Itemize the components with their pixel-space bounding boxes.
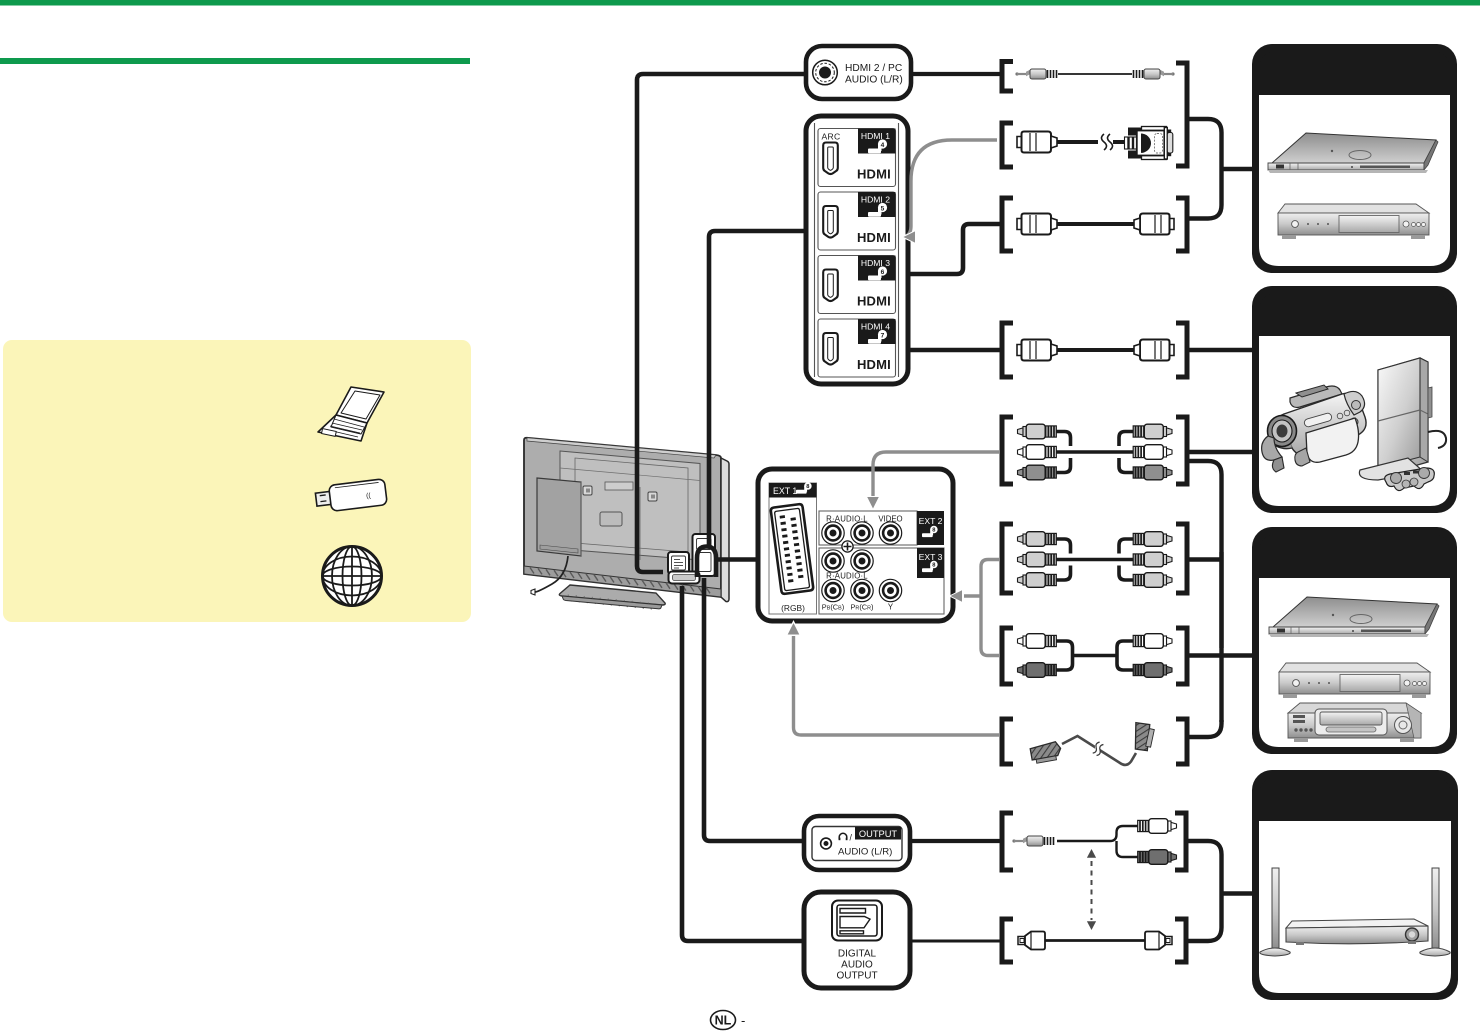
wire: OUTPUT box to bracket [910, 839, 1000, 843]
audio cable plugs [1018, 634, 1173, 678]
wire: TV to AUDIO OUTPUT box [704, 578, 804, 841]
svg-text:HDMI: HDMI [857, 357, 891, 372]
HDMI-DVI cable [1017, 127, 1173, 160]
svg-text:OUTPUT: OUTPUT [859, 829, 898, 839]
blu-ray player illustration [1268, 133, 1438, 173]
terminal cover panel tall [693, 534, 716, 576]
svg-text:HDMI: HDMI [857, 167, 891, 182]
bottom dark strip with vents [524, 566, 721, 597]
svg-text:HDMI: HDMI [857, 230, 891, 245]
minijack-2rca cable [1012, 819, 1176, 865]
mount holes [583, 486, 592, 495]
lower-left service door [537, 478, 581, 556]
bracket right row3 [1176, 198, 1187, 251]
strap [1262, 436, 1282, 460]
HDMI 1 port cell [818, 129, 896, 187]
wire: row10 to trunk and device box 4 [1186, 886, 1222, 941]
globe icon [323, 547, 382, 606]
EXT 1 terminal box [758, 469, 953, 621]
svg-text:ARC: ARC [822, 132, 841, 142]
bracket left row5 [1002, 417, 1013, 484]
top handle [1290, 386, 1342, 407]
TV right side edge [721, 458, 729, 602]
svg-text:5: 5 [881, 205, 885, 212]
HDMI 2 / PC AUDIO (L/R) terminal box [806, 46, 911, 99]
EXT2 panel (composite) [819, 511, 917, 545]
wire: DIGITAL box to bracket [910, 940, 1000, 943]
HDMI 2 receptacle [823, 206, 838, 238]
DVI connector [1125, 127, 1173, 160]
component cable plugs [1018, 532, 1173, 588]
scart plug right [1130, 722, 1155, 752]
svg-text:HDMI 1: HDMI 1 [861, 131, 890, 141]
TV rear view illustration [524, 438, 729, 610]
svg-text:EXT 3: EXT 3 [919, 552, 943, 562]
svg-text:6: 6 [881, 269, 885, 276]
bracket left row2 [1002, 123, 1013, 167]
headphone glyph [839, 833, 847, 839]
gray lead: SCART cable to EXT1 bottom [794, 634, 1000, 735]
optical cable [1018, 932, 1172, 950]
gray lead: composite cable to EXT2 panel [873, 452, 999, 496]
HDMI cable row4 [1017, 340, 1174, 361]
device box: camcorder/game console [1252, 286, 1457, 513]
wire: HDMI4 port to bracket [906, 348, 1000, 353]
bracket right row5 [1176, 417, 1187, 484]
HDMI 3 label plate [858, 256, 896, 281]
svg-text:AUDIO (L/R): AUDIO (L/R) [838, 847, 892, 858]
lens barrel rings [1269, 414, 1292, 449]
bracket right row6 [1176, 524, 1187, 593]
TV top edge strip [527, 438, 716, 458]
laptop icon [318, 387, 384, 441]
svg-text:EXT 1: EXT 1 [773, 486, 797, 496]
svg-text:HDMI 3: HDMI 3 [861, 258, 890, 268]
DIGITAL AUDIO OUTPUT terminal box [804, 892, 910, 988]
vcr illustration [1288, 703, 1421, 742]
svg-text:AUDIO: AUDIO [841, 960, 873, 971]
green section rule [0, 58, 470, 64]
svg-text:HDMI 2 / PC: HDMI 2 / PC [845, 63, 902, 74]
wire: row4 to device box 2 [1188, 348, 1252, 353]
svg-text:HDMI 2: HDMI 2 [861, 195, 890, 205]
EXT 2 label plate [917, 511, 944, 545]
power cord [535, 556, 568, 592]
wire: TV to EXT1 [714, 557, 758, 562]
wire: HDMI2/PC AUDIO to TV [637, 74, 806, 572]
vent hatch strip upper [560, 468, 700, 481]
device box: Blu-ray/DVD/VCR stack [1252, 527, 1457, 754]
footer page mark (NL) [711, 1011, 746, 1030]
scart plug left [1030, 741, 1063, 764]
svg-text:HDMI 4: HDMI 4 [861, 322, 890, 332]
bracket left row10 [1002, 919, 1013, 962]
mini-jack cable [1015, 69, 1174, 79]
HDMI 2 label plate [858, 192, 896, 217]
home theater illustration [1260, 868, 1450, 956]
bracket left row6 [1002, 524, 1013, 593]
bracket right row9 [1175, 813, 1186, 870]
HDMI 4 port cell [818, 319, 896, 377]
svg-text:DIGITAL: DIGITAL [838, 949, 877, 960]
tall right bracket rows 1-2 [1176, 63, 1187, 166]
EXT 3 label plate [917, 548, 944, 578]
SCART connector (EXT1 RGB) [770, 504, 813, 594]
EXT3 panel (component) [819, 548, 944, 614]
bracket left row9 [1002, 813, 1013, 870]
device box: Blu-ray/DVD player [1252, 44, 1457, 273]
gray lead: component+audio to EXT3 [981, 560, 999, 656]
svg-text:NL: NL [715, 1014, 732, 1028]
OUTPUT AUDIO (L/R) terminal box [804, 816, 910, 870]
svg-text:HDMI: HDMI [857, 294, 891, 309]
dvd player illustration 2 [1279, 663, 1430, 698]
wire loop at TV terminal [697, 547, 716, 578]
HDMI 4 label plate [858, 319, 896, 344]
HDMI 2 port cell [818, 192, 896, 250]
side detail [1303, 412, 1332, 427]
bracket left row4 [1002, 323, 1013, 377]
TV cabinet back panel [524, 438, 721, 597]
bracket left row3 [1002, 198, 1013, 251]
plus joint symbol [842, 541, 853, 552]
device box: home theater audio system [1252, 770, 1458, 1000]
wire: composite branch to trunk [1188, 461, 1222, 552]
bracket right row8 [1176, 719, 1187, 764]
viewfinder [1344, 391, 1365, 415]
wire: HDMI3 port to bracket [906, 224, 1000, 274]
bracket left row8 [1002, 719, 1013, 764]
HDMI 3 port cell [818, 256, 896, 314]
top green header bar [0, 0, 1480, 6]
HDMI cable row3 [1017, 214, 1174, 235]
wire: TV to DIGITAL AUDIO OUTPUT box [682, 586, 804, 941]
camcorder illustration [1262, 385, 1366, 472]
OUTPUT label plate [855, 827, 901, 840]
svg-text:7: 7 [881, 332, 885, 339]
HDMI 4 receptacle [823, 333, 838, 365]
wire: composite to device box 2 [1188, 450, 1252, 455]
TV stand base [559, 585, 665, 605]
game console illustration [1359, 358, 1446, 491]
EXT1 scart area outline [769, 483, 817, 614]
svg-text:OUTPUT: OUTPUT [836, 971, 877, 982]
mid panel lines [581, 482, 640, 560]
SCART cable [1030, 722, 1155, 765]
wire: HDMI2/PC box to bracket [911, 72, 1000, 76]
EXT 1 label plate [769, 483, 817, 498]
svg-text:(RGB): (RGB) [781, 603, 805, 613]
wire: SCART row to trunk [1188, 720, 1222, 737]
wire: HDMI2 port to TV [709, 231, 818, 545]
bracket right row10 [1175, 919, 1186, 962]
wire: component to trunk [1188, 557, 1222, 562]
usb wireless dongle icon [315, 479, 388, 513]
right junction trunk rows1-2 to device box 1 [1188, 119, 1222, 219]
HDMI terminals group box [806, 116, 908, 384]
svg-text:Y: Y [888, 603, 894, 612]
svg-text:-: - [741, 1013, 745, 1028]
wire: row9 to trunk [1186, 841, 1222, 886]
svg-text:4: 4 [881, 142, 885, 149]
bracket left row7 [1002, 628, 1013, 684]
TV inner mount panel [560, 451, 700, 560]
dvd recorder illustration [1278, 204, 1429, 239]
HDMI 1 label plate [858, 129, 896, 154]
gray lead: DVI cable to HDMI2 port [906, 140, 997, 236]
terminal cover panel small [668, 552, 689, 574]
svg-text:EXT 2: EXT 2 [919, 516, 943, 526]
bottom tab cover [669, 572, 700, 584]
bracket right row7 [1176, 628, 1187, 684]
bracket left row1 [1002, 62, 1013, 92]
HDMI 1 receptacle [823, 143, 838, 175]
HDMI 3 receptacle [823, 270, 838, 302]
svg-text:AUDIO (L/R): AUDIO (L/R) [845, 75, 903, 86]
svg-text:PB(CB): PB(CB) [822, 603, 844, 612]
bracket right row4 [1176, 323, 1187, 377]
composite cable plugs [1018, 424, 1173, 480]
blu-ray player illustration 2 [1269, 597, 1439, 637]
or-arrow dashed between row9 and row10 [1091, 861, 1093, 920]
main body [1283, 393, 1367, 455]
wire: audio/trunk to device box 3 [1188, 653, 1252, 658]
optical terminal icon [832, 901, 882, 941]
yellow note box [3, 340, 471, 622]
cassette door [1306, 418, 1359, 462]
